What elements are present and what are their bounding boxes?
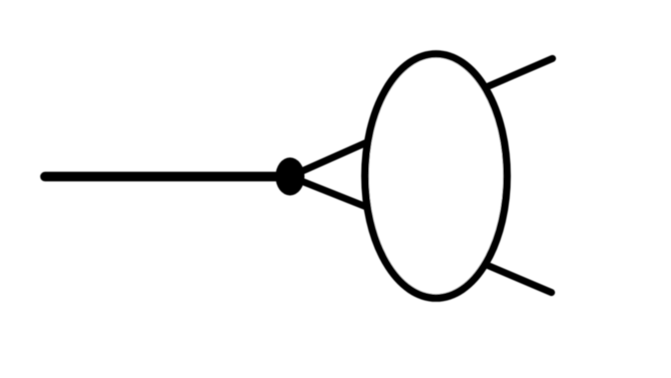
wire: upper outgoing line <box>482 59 553 90</box>
wire: lower internal line from vertex to blob <box>290 177 371 209</box>
blob: large ellipse <box>365 54 507 298</box>
wire: thick incoming line <box>45 172 290 182</box>
node: vertex dot <box>276 158 305 196</box>
wire: lower outgoing line <box>484 264 552 293</box>
wire: upper internal line from vertex to blob <box>290 140 372 176</box>
